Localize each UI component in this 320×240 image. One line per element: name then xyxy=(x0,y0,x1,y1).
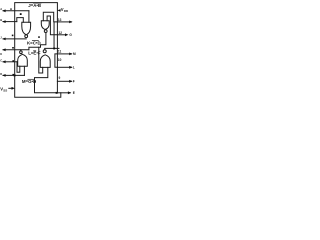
svg-text:E: E xyxy=(73,91,75,95)
gate TR output bubble xyxy=(44,30,47,33)
svg-text:K=C•D: K=C•D xyxy=(27,41,41,46)
wire K-net to gate M left input xyxy=(39,47,43,73)
VDD terminal arrow (pin 14) xyxy=(57,9,60,12)
svg-text:M=G•H: M=G•H xyxy=(22,79,36,84)
pin 5 stub xyxy=(3,61,17,63)
pin 3 terminal arrow xyxy=(2,38,5,41)
pin 11 arrow xyxy=(69,53,72,56)
overline of label J=A.B xyxy=(34,2,42,4)
gate M output bubble xyxy=(43,50,46,53)
wire pin 6 to gate K right input xyxy=(23,66,25,75)
gate K bubble stub xyxy=(20,50,22,51)
svg-text:L: L xyxy=(73,66,75,70)
pin 2 terminal arrow xyxy=(2,20,5,23)
pin 13 arrow xyxy=(69,21,72,24)
pin 6 stub xyxy=(3,74,24,76)
wire pin2 jog to gate A input xyxy=(17,18,24,23)
svg-text:B: B xyxy=(0,18,2,22)
svg-text:10: 10 xyxy=(58,58,62,62)
svg-text:F: F xyxy=(73,80,75,84)
pin 13 stub xyxy=(57,21,71,23)
pin 3 stub and output wire xyxy=(3,38,26,40)
VSS terminal arrow xyxy=(12,87,15,90)
pin 10 arrow xyxy=(69,66,72,69)
VSS pin stub xyxy=(9,87,12,89)
pin 10 letter L xyxy=(73,66,75,70)
pin 3 number mark xyxy=(12,35,14,37)
overline of label L=E.F xyxy=(34,50,36,52)
pin 6 number mark xyxy=(12,74,14,76)
junction dot pin 6 at border xyxy=(14,74,16,76)
pin 9 arrow xyxy=(69,80,72,83)
VDD label xyxy=(61,7,69,13)
pin 13 number xyxy=(58,18,62,22)
svg-text:J=A•B: J=A•B xyxy=(28,3,41,8)
pin 5 number mark xyxy=(12,60,14,62)
svg-text:D: D xyxy=(0,72,2,76)
junction dot pin8 at border xyxy=(56,92,58,94)
gate M (bottom-right NAND, pointing up) xyxy=(40,55,50,68)
small printed mark left of gate TR output wire xyxy=(38,36,40,38)
pin 2 stub xyxy=(3,21,17,23)
label L=E.F xyxy=(28,51,41,56)
pin 8 letter xyxy=(73,91,75,95)
pin 1 stub xyxy=(3,10,29,12)
svg-text:9: 9 xyxy=(59,76,61,80)
pin 5 terminal arrow xyxy=(2,60,5,63)
wire pin 5 under gate K to left input xyxy=(17,62,20,73)
pin 12 stub xyxy=(57,34,65,36)
overline of label K=C.D xyxy=(32,40,38,42)
pin 10 stub xyxy=(57,66,71,68)
svg-text:M: M xyxy=(73,52,76,56)
pin 4 number mark xyxy=(12,47,14,49)
overline of label M=G.H xyxy=(28,78,35,80)
wire pin13 to gate TR left input xyxy=(43,12,57,22)
pin 9 letter xyxy=(73,80,75,84)
pin 9 stub xyxy=(57,80,71,82)
wire pin13 branch down (latch feedback) xyxy=(53,22,55,49)
pin 8 arrow xyxy=(68,91,71,94)
pin 11 letter M xyxy=(73,52,76,56)
wire pin1 to gate A input xyxy=(28,11,30,22)
pin 2 number mark xyxy=(20,13,22,15)
gate A (top-left NAND, pointing down) xyxy=(22,22,31,35)
pin 10 number xyxy=(58,58,62,62)
gate K (bottom-left NAND, pointing up) xyxy=(18,54,28,66)
wire pin12 to gate TR right input xyxy=(47,16,57,35)
VSS label (pin 7) xyxy=(0,86,7,92)
gate TR (top-right NAND, pointing down) xyxy=(41,21,49,30)
pin 12 arrow xyxy=(65,33,68,36)
pin 11 stub xyxy=(57,53,71,55)
svg-text:13: 13 xyxy=(58,18,62,22)
pin 1 number mark xyxy=(10,8,11,9)
wire pin 11 inside down to pin 10 (V1b) xyxy=(55,54,58,67)
gate A output bubble xyxy=(25,35,28,38)
wire gate M output to border (H1) xyxy=(45,48,59,49)
pin 1 terminal arrow xyxy=(2,9,5,12)
pin 8 stub xyxy=(57,92,70,94)
pin 6 terminal arrow xyxy=(2,74,5,77)
wire: K net staircase to top-right gate output xyxy=(29,33,46,50)
svg-text:SS: SS xyxy=(3,88,7,92)
pin 4 stub and wire xyxy=(3,49,29,51)
gate K output bubble xyxy=(20,51,23,54)
pin 11 number xyxy=(58,50,62,54)
junction dot H1/V1 xyxy=(53,48,55,50)
pin 4 terminal arrow xyxy=(2,48,5,51)
svg-text:A: A xyxy=(0,7,2,11)
label M=G.H xyxy=(22,79,36,84)
label K=C.D xyxy=(27,41,41,46)
wire pin 8 inside to gate M right input xyxy=(35,67,58,92)
pin 12 number xyxy=(59,31,63,35)
pin 9 number xyxy=(59,76,61,80)
svg-text:12: 12 xyxy=(59,31,63,35)
label J=A.B xyxy=(28,3,41,8)
IC package border xyxy=(15,3,61,98)
svg-text:C: C xyxy=(0,59,2,63)
svg-text:K: K xyxy=(0,52,2,56)
pin 12 letter G xyxy=(69,33,72,37)
svg-text:11: 11 xyxy=(58,50,62,54)
left pin letters xyxy=(0,7,2,76)
